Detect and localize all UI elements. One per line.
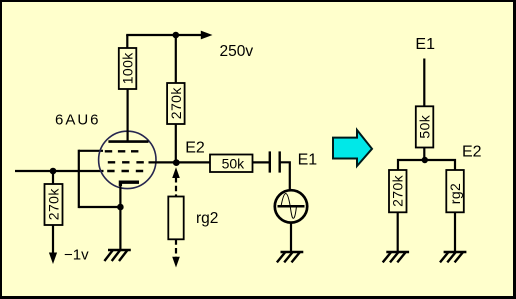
svg-text:6AU6: 6AU6 [55, 111, 101, 128]
resistor 270k (equivalent) [389, 170, 407, 252]
label -1v [64, 247, 89, 264]
ground (signal source) [277, 252, 303, 262]
resistor 270k (grid leak to -1v) [45, 171, 63, 264]
resistor 50k (equivalent) [416, 106, 434, 160]
source: sine signal generator [275, 190, 307, 252]
resistor 100k (plate load) [119, 35, 137, 89]
label E1 (equivalent circuit) [415, 36, 435, 53]
wire: E2 bus with drops [398, 160, 455, 170]
svg-text:E1: E1 [415, 36, 435, 53]
label E2 [185, 140, 205, 157]
svg-text:250v: 250v [220, 43, 254, 60]
svg-text:rg2: rg2 [196, 210, 218, 227]
plate lead wire [126, 89, 128, 142]
vacuum tube 6AU6 pentode [99, 89, 156, 189]
label rg2 [196, 210, 218, 227]
resistor rg2 (equivalent) [446, 170, 464, 252]
node E2 (equivalent) [422, 157, 428, 163]
cathode [120, 182, 139, 186]
svg-text:270k: 270k [390, 174, 406, 207]
plate [108, 140, 148, 143]
label 250v [220, 43, 254, 60]
wire: suppressor-to-cathode tie [79, 150, 121, 208]
wire: plate supply rail [126, 34, 201, 36]
svg-text:E2: E2 [185, 140, 205, 157]
svg-text:270k: 270k [168, 87, 184, 120]
wire: input to control grid g1 [15, 170, 104, 172]
label E2 (equivalent circuit) [462, 143, 482, 160]
ground (under rg2 equivalent) [440, 252, 466, 262]
svg-text:270k: 270k [46, 188, 62, 221]
resistor 50k (coupling) [210, 155, 270, 173]
svg-text:50k: 50k [222, 156, 246, 172]
node: grid input junction [50, 168, 57, 175]
ground (cathode) [104, 250, 130, 261]
wire: E1 to 50k [423, 59, 425, 107]
svg-text:E1: E1 [298, 152, 318, 169]
grid g2 screen [108, 161, 144, 163]
arrow to 250v supply [201, 31, 213, 40]
node: supply rail junction [173, 32, 180, 39]
tube envelope [99, 131, 156, 188]
label E1 [298, 152, 318, 169]
node E2 [173, 159, 180, 166]
resistor 270k (screen dropper) [167, 35, 185, 162]
svg-text:−1v: −1v [64, 247, 89, 264]
wire: cathode lead [119, 182, 121, 250]
label 6AU6 [55, 111, 101, 128]
svg-text:100k: 100k [120, 52, 136, 85]
wire: screen grid to E2 node [149, 161, 211, 163]
grid g1 control [107, 170, 143, 172]
ground (under 270k equivalent) [383, 252, 409, 262]
svg-text:E2: E2 [462, 143, 482, 160]
svg-text:50k: 50k [417, 114, 433, 138]
grid g3 suppressor [105, 150, 140, 152]
node: cathode junction [117, 204, 124, 211]
capacitor (coupling) [270, 151, 290, 190]
resistor rg2 (effective screen resistance, dashed) [168, 167, 183, 267]
svg-text:rg2: rg2 [447, 183, 463, 204]
block arrow (to equivalent circuit) [333, 130, 372, 166]
